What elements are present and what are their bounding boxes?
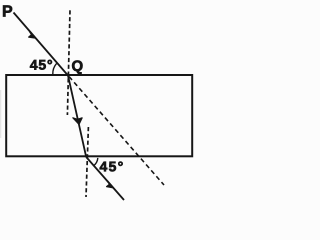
angle arc at R — [94, 158, 98, 166]
arrowhead on exit ray — [107, 181, 114, 188]
dashed continuation of incident ray — [69, 77, 164, 186]
angle arc at Q — [53, 63, 57, 74]
arrowhead on refracted ray — [73, 118, 82, 125]
normal at Q (dashed) — [67, 10, 70, 115]
angle label 45 deg (top) — [30, 60, 52, 70]
glass slab rectangle — [6, 75, 192, 156]
refracted ray Q to R — [68, 76, 86, 158]
incident ray P to Q — [14, 13, 69, 76]
angle label 45 deg (bottom) — [100, 162, 123, 172]
normal at R (dashed) — [86, 127, 88, 197]
label P — [3, 6, 12, 17]
faint scan smudge at left image edge — [0, 90, 1, 138]
exit ray from R — [86, 157, 124, 200]
arrowhead on incident ray — [29, 32, 36, 39]
label Q — [72, 61, 82, 75]
